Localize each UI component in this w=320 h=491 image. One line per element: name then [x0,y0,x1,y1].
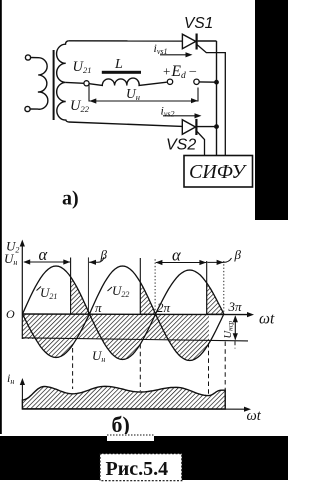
svg-text:Рис.5.4: Рис.5.4 [106,458,169,480]
leader line c1 [87,257,89,314]
terminal - of Ed [194,79,199,84]
svg-text:б): б) [112,412,130,437]
current arrow i vs1 [160,52,193,57]
svg-text:α: α [39,245,48,264]
alpha arrow 2 [155,260,206,265]
dashed link 2 [139,344,141,391]
axis horizontal in [22,407,251,412]
tick below Unsr line [234,341,236,348]
wire center tap [66,81,84,84]
inductor L [89,71,167,86]
curve U21 [23,266,224,360]
hatched area below axis [23,314,210,361]
thyristor VS1 [182,34,196,50]
dashed link 3 [208,343,210,394]
thyristor VS2 [182,119,196,135]
figure caption box [100,454,182,481]
gate VS1 wire [197,45,225,156]
hatched triangle 2 [140,282,155,314]
svg-text:L: L [114,57,123,72]
svg-text:–: – [189,63,197,78]
terminal + of Ed [167,79,172,84]
junction dot VS2 [214,124,219,129]
svg-text:3π: 3π [228,299,243,314]
wire secondary top to VS1 [69,40,183,42]
arrow Unsr [233,315,238,340]
svg-text:β: β [234,247,242,262]
block SIFU [184,156,253,188]
wire VS1 cathode to bus [198,40,217,42]
level line Unsr [22,338,248,341]
firing line 2 [139,258,141,314]
svg-text:а): а) [62,188,79,210]
anchor notch [107,434,154,441]
ripple waveform in [22,386,225,409]
hatched triangle 3 [207,283,224,314]
firing line 1 [70,258,72,315]
curve U22 [23,266,224,361]
svg-text:α: α [172,246,181,265]
current arrow i vs2 [163,113,202,118]
gate VS2 wire [197,132,205,156]
svg-text:2π: 2π [157,300,171,315]
svg-text:+: + [163,64,170,79]
dashed link 4 [224,342,226,409]
axis vertical in [20,378,25,409]
leader tick U22 [108,287,113,291]
alpha arrow 1 [23,259,70,264]
svg-text:СИФУ: СИФУ [189,161,247,183]
node center tap [84,81,89,86]
beta arrow 1 [89,257,104,265]
axis vertical U2 [20,240,25,340]
svg-text:VS1: VS1 [184,15,213,32]
svg-text:ωt: ωt [247,408,262,424]
hatched triangle 1 [71,277,90,314]
leader line c2 dotted [154,259,156,313]
wire Ed to cathode bus [199,81,216,83]
wire secondary bottom to VS2 [69,122,183,126]
beta arrow 2 [207,258,231,265]
leader line c3 dotted [223,261,225,315]
voltage arrow Un [89,85,198,104]
transformer core [53,50,55,120]
svg-text:ωt: ωt [259,311,275,328]
transformer T1 secondary winding [57,41,69,122]
wire cathode bus vertical [216,41,218,156]
leader tick U21 [37,287,42,291]
wire VS2 cathode to bus [197,126,216,128]
junction dot [214,80,219,85]
svg-text:π: π [95,300,102,315]
svg-text:O: O [6,307,15,321]
scan edge line left [0,0,2,434]
axis horizontal wt [22,312,254,317]
firing line 3 [206,261,208,315]
scan black band bottom [0,436,288,480]
svg-text:β: β [100,247,108,262]
svg-text:VS2: VS2 [166,137,196,154]
transformer T1 primary winding [25,55,48,112]
scan black band right [255,0,288,220]
dashed link 1 [72,348,74,389]
